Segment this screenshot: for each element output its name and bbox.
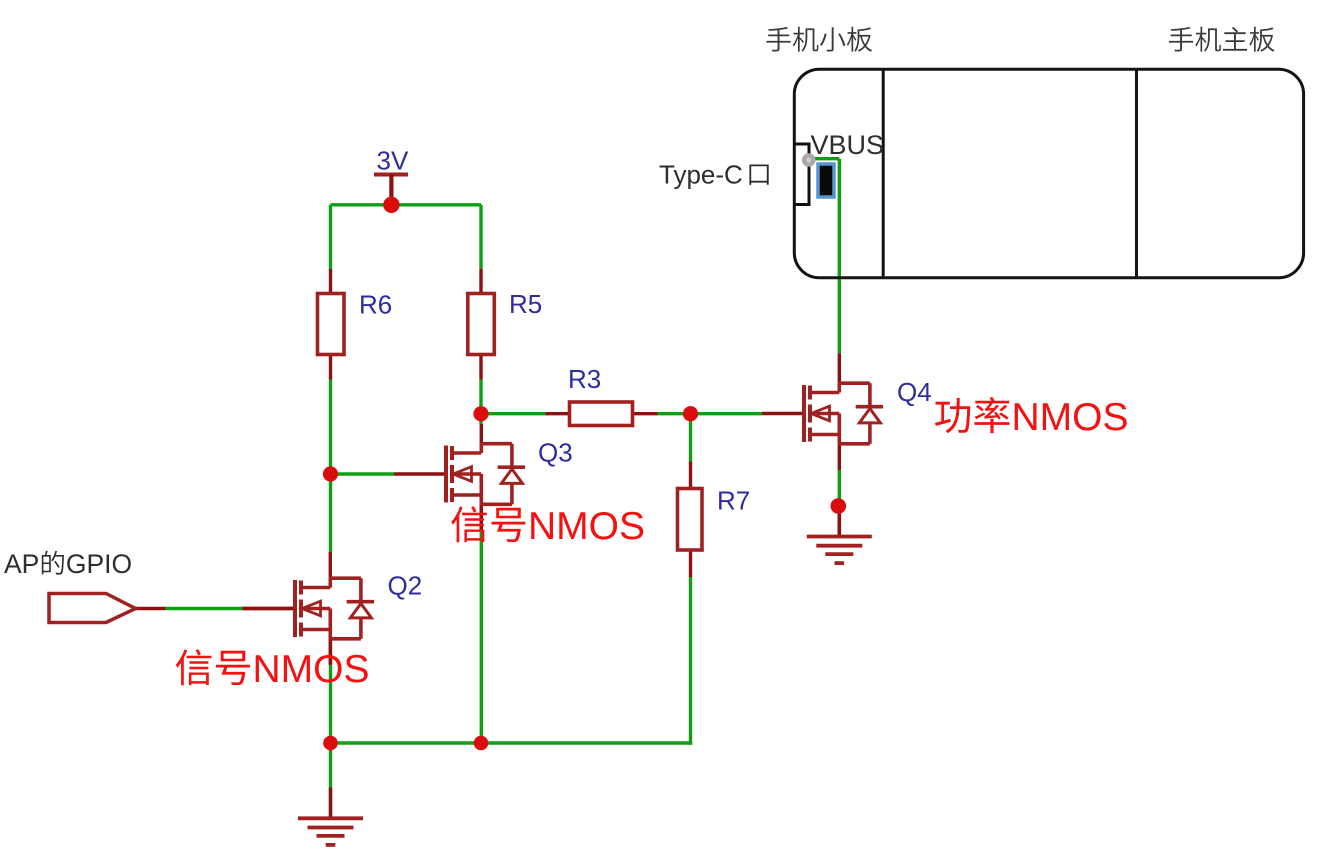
junction 3V node xyxy=(383,197,399,213)
wire 3V node to R5 xyxy=(479,205,482,294)
wire node B to Q3 drain xyxy=(479,414,482,424)
transistor Q3 xyxy=(394,424,525,530)
junction ground bus mid xyxy=(474,736,489,751)
svg-text:3V: 3V xyxy=(377,146,409,176)
transistor Q2 xyxy=(242,552,374,665)
ground (Q4 source) xyxy=(807,506,872,563)
VBUS pad (blue) xyxy=(818,164,834,197)
annotation signal NMOS (Q2) xyxy=(176,648,370,691)
wire R7 to ground bus xyxy=(689,550,692,745)
Type-C connector bracket xyxy=(795,144,810,205)
transistor Q4 xyxy=(762,353,883,470)
svg-text:Type-C: Type-C xyxy=(659,160,743,190)
annotation signal NMOS (Q3) xyxy=(451,505,645,548)
wire node A to Q2 drain xyxy=(329,474,332,552)
phone body outline xyxy=(794,69,1303,277)
resistor R5 xyxy=(468,294,495,355)
GPIO input flag xyxy=(49,594,136,623)
svg-text:R3: R3 xyxy=(568,364,601,394)
svg-text:AP: AP xyxy=(4,549,39,579)
svg-text:GPIO: GPIO xyxy=(66,549,132,579)
wire 3V node to R6 xyxy=(329,205,332,294)
wire R6 to node A xyxy=(329,355,332,475)
ground (left) xyxy=(298,788,363,845)
svg-text:Q3: Q3 xyxy=(538,437,573,467)
junction Q4 source node xyxy=(831,498,847,514)
wire node A to Q3 gate xyxy=(331,472,395,475)
wire ground bus xyxy=(331,741,693,744)
svg-text:R5: R5 xyxy=(509,289,542,319)
resistor R6 xyxy=(318,294,345,355)
svg-text:NMOS: NMOS xyxy=(1012,396,1129,439)
svg-text:NMOS: NMOS xyxy=(253,648,370,691)
junction node B xyxy=(473,406,488,421)
wire Q2 source down xyxy=(329,639,332,743)
junction ground bus left xyxy=(323,736,338,751)
resistor R3 xyxy=(570,402,633,426)
label phone mainboard xyxy=(1169,27,1275,52)
annotation power NMOS (Q4) xyxy=(935,396,1129,439)
wire R5 to node B xyxy=(479,355,482,414)
wire VBUS to Q4 drain xyxy=(810,159,839,354)
svg-text:Q4: Q4 xyxy=(897,377,932,407)
wire GPIO to Q2 gate xyxy=(136,607,296,610)
resistor R7 xyxy=(678,489,703,551)
svg-text:Q2: Q2 xyxy=(388,571,423,601)
svg-text:R7: R7 xyxy=(717,486,750,516)
junction node C xyxy=(683,406,698,421)
wire R3 to node C xyxy=(632,412,691,415)
power symbol 3V xyxy=(374,175,408,199)
svg-text:VBUS: VBUS xyxy=(811,130,885,160)
svg-text:R6: R6 xyxy=(359,290,392,320)
label phone daughterboard xyxy=(766,27,872,52)
wire Q3 source down xyxy=(480,504,483,743)
junction node A xyxy=(323,466,338,481)
wire ground bus to left ground xyxy=(329,743,332,788)
via pad (gray) xyxy=(802,153,816,167)
svg-text:NMOS: NMOS xyxy=(528,505,645,548)
wire 3V top bus xyxy=(331,203,482,206)
wire node B to R3 xyxy=(481,412,570,415)
phone divider 2 xyxy=(1135,69,1138,277)
wire node C to Q4 gate xyxy=(691,412,763,415)
label AP GPIO xyxy=(4,549,132,579)
wire Q4 source to ground node xyxy=(838,470,841,506)
wire node C to R7 xyxy=(689,414,692,489)
phone divider 1 xyxy=(882,69,885,277)
label Type-C port xyxy=(659,160,769,190)
